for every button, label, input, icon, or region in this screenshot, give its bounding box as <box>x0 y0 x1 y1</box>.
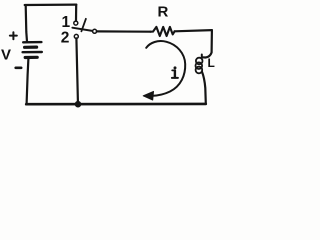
battery V: plate 4 short thick <box>25 56 37 59</box>
wire: drop from top rail to switch terminal 1 <box>75 5 77 21</box>
switch blade (arm) <box>72 28 92 31</box>
svg-text:1: 1 <box>62 14 71 31</box>
wire: bottom rail <box>26 103 206 106</box>
wire: switch pole to resistor <box>97 30 151 33</box>
svg-text:R: R <box>158 4 169 21</box>
svg-text:V: V <box>1 47 11 64</box>
wire: resistor to top-right corner <box>175 30 212 31</box>
battery V: plate 1 long (+) <box>23 41 41 44</box>
inductor L coil loop 2 <box>196 62 203 69</box>
wire: left vertical from top corner down to battery top plate <box>26 6 27 42</box>
inductor L coil loop 3 <box>196 67 203 74</box>
current arrow i: clockwise arc <box>146 41 185 96</box>
svg-text:2: 2 <box>61 29 70 46</box>
wire: battery bottom stub down to bottom rail <box>27 59 29 104</box>
switch pole contact circle <box>93 29 97 33</box>
svg-text:L: L <box>208 56 215 70</box>
wire: switch terminal 2 down to bottom junction <box>76 38 78 101</box>
switch terminal 1 contact circle <box>74 21 78 25</box>
wire: top rail from left corner to switch drop <box>25 3 77 6</box>
label i (current) <box>172 66 178 78</box>
wire: right vertical down to inductor <box>202 30 212 57</box>
battery V: plate 3 long <box>23 51 42 54</box>
resistor R zigzag <box>150 27 174 36</box>
inductor L coil loop 1 <box>196 58 203 65</box>
battery V: plate 2 short thick <box>25 45 37 48</box>
label + (battery positive) <box>10 32 17 39</box>
switch terminal 2 contact circle <box>74 34 78 38</box>
switch blade tick (slash) <box>81 19 86 32</box>
junction node at bottom of switch branch <box>75 101 82 108</box>
inductor L coil: entry stub <box>201 55 203 59</box>
current arrow i: arrowhead <box>143 91 153 100</box>
label - (battery negative) <box>16 67 22 70</box>
wire: inductor bottom to bottom-right corner <box>202 72 206 104</box>
